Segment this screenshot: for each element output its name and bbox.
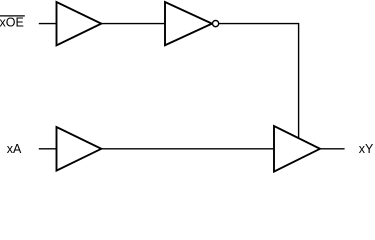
svg-text:xY: xY xyxy=(359,142,374,156)
svg-text:xA: xA xyxy=(7,142,22,156)
wire xY output xyxy=(320,148,345,150)
buffer U1 xyxy=(57,2,102,45)
svg-text:xOE: xOE xyxy=(0,15,24,29)
wire U3 output to U4 input xyxy=(101,148,274,150)
buffer U3 xyxy=(57,127,102,171)
tri-state buffer U4 xyxy=(274,126,320,172)
wire xOE input xyxy=(39,23,57,25)
wire U2 output horizontal xyxy=(219,23,299,25)
wire enable vertical xyxy=(298,23,300,139)
inverter U2 xyxy=(165,2,212,45)
wire U1 output to U2 input xyxy=(101,23,165,25)
net xOE label xyxy=(0,15,25,29)
wire xA input xyxy=(39,148,57,150)
inverter bubble xyxy=(213,21,219,27)
